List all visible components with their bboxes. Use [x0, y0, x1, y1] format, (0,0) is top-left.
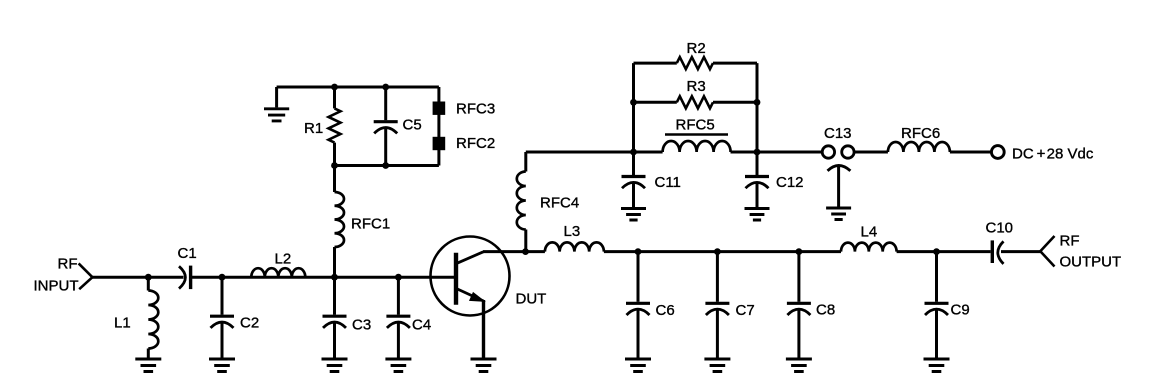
- wire input main line: [92, 276, 183, 279]
- inductor RFC5: [663, 135, 731, 153]
- ground C11: [621, 209, 646, 221]
- inductor L4: [841, 243, 897, 252]
- ground top-left: [264, 87, 289, 121]
- node C6 junction: [635, 248, 642, 255]
- transistor Q1 DUT: [431, 237, 510, 358]
- svg-text:L4: L4: [861, 224, 878, 241]
- wire bias rail left: [526, 151, 663, 154]
- wire bottom rail: [335, 164, 439, 167]
- node C5 bottom: [382, 162, 389, 169]
- inductor L3: [545, 242, 604, 251]
- ground C2: [209, 359, 235, 372]
- node C3 / RFC1 junction: [331, 274, 338, 281]
- inductor RFC6: [888, 142, 950, 152]
- svg-text:C10: C10: [986, 220, 1014, 237]
- wire divider right vertical: [756, 63, 759, 152]
- wire C10 to output arrow: [1001, 250, 1040, 253]
- capacitor C2: [210, 277, 234, 357]
- wire output line mid: [604, 250, 841, 253]
- ground C12: [745, 209, 770, 221]
- capacitor C6: [626, 252, 650, 358]
- svg-text:R3: R3: [687, 78, 706, 95]
- svg-text:INPUT: INPUT: [34, 278, 79, 295]
- ground C9: [924, 359, 950, 372]
- svg-text:DC + 28 Vdc: DC + 28 Vdc: [1012, 146, 1094, 163]
- node C2 junction: [219, 274, 226, 281]
- svg-text:L2: L2: [275, 251, 292, 268]
- svg-text:R1: R1: [304, 120, 323, 137]
- RF INPUT terminal arrow: [79, 263, 93, 289]
- ground C7: [704, 359, 730, 372]
- svg-text:RF: RF: [1060, 233, 1080, 250]
- capacitor C10: [992, 240, 1003, 264]
- capacitor C5: [374, 87, 398, 166]
- inductor L2: [251, 268, 305, 277]
- svg-text:C4: C4: [412, 317, 431, 334]
- RF OUTPUT terminal arrow: [1040, 236, 1054, 267]
- svg-text:L3: L3: [564, 223, 581, 240]
- node R1 top: [331, 84, 338, 91]
- wire divider left vertical: [632, 63, 635, 152]
- svg-text:C1: C1: [178, 245, 197, 262]
- svg-text:L1: L1: [114, 315, 131, 332]
- svg-text:RFC1: RFC1: [351, 216, 390, 233]
- wire RFC6 to DC terminal: [950, 151, 992, 154]
- svg-text:C8: C8: [816, 302, 835, 319]
- node C8 junction: [796, 248, 803, 255]
- resistor R2: [634, 57, 758, 69]
- ground C6: [625, 359, 651, 372]
- svg-text:C9: C9: [951, 302, 970, 319]
- inductor L1: [148, 277, 158, 357]
- capacitor C1: [179, 266, 191, 290]
- node R3 left: [630, 99, 637, 106]
- node C9 junction: [933, 248, 940, 255]
- svg-text:C13: C13: [824, 125, 852, 142]
- wire rail C12 to C13: [757, 151, 822, 154]
- wire RFC3/RFC2 branch: [437, 87, 440, 166]
- node C12 / divider junction: [754, 149, 761, 156]
- node R1 bottom: [331, 162, 338, 169]
- svg-text:C7: C7: [736, 302, 755, 319]
- svg-text:RFC5: RFC5: [676, 117, 715, 134]
- ground C4: [385, 359, 411, 372]
- wire L4 to C10: [897, 250, 991, 253]
- node C4 junction: [395, 274, 402, 281]
- wire RFC5 to C12 node: [731, 151, 758, 154]
- svg-text:RFC6: RFC6: [901, 125, 940, 142]
- resistor R1: [329, 87, 341, 166]
- node C11 / divider junction: [630, 149, 637, 156]
- resistor R3: [634, 96, 758, 108]
- node C7 junction: [714, 248, 721, 255]
- capacitor C9: [925, 252, 949, 358]
- ground C3: [322, 359, 348, 372]
- svg-text:C11: C11: [655, 174, 681, 191]
- svg-text:R2: R2: [687, 40, 706, 57]
- ground C8: [786, 359, 812, 372]
- ground L1: [135, 359, 161, 372]
- ground emitter: [471, 359, 497, 372]
- node L1 junction: [145, 274, 152, 281]
- wire top rail: [277, 86, 439, 89]
- node C5 top: [382, 84, 389, 91]
- node R3 right: [754, 99, 761, 106]
- wire C1 to base: [191, 276, 456, 279]
- svg-text:RFC4: RFC4: [540, 195, 579, 212]
- node collector / RFC4 junction: [522, 248, 529, 255]
- capacitor C11: [622, 152, 646, 207]
- inductor RFC1: [335, 166, 345, 278]
- svg-text:RFC3: RFC3: [456, 101, 495, 118]
- feedthrough capacitor C13: [822, 146, 854, 207]
- inductor RFC4: [517, 152, 526, 252]
- wire C13 to RFC6: [854, 151, 888, 154]
- svg-text:C3: C3: [352, 317, 371, 334]
- capacitor C12: [745, 152, 769, 207]
- svg-text:C6: C6: [656, 302, 675, 319]
- wire collector output line: [483, 250, 545, 253]
- capacitor C3: [323, 277, 347, 357]
- ferrite bead RFC2: [433, 137, 446, 150]
- svg-text:C12: C12: [776, 174, 804, 191]
- ferrite bead RFC3: [433, 102, 446, 115]
- svg-text:RF: RF: [58, 256, 78, 273]
- svg-text:C2: C2: [240, 315, 259, 332]
- svg-text:OUTPUT: OUTPUT: [1060, 254, 1122, 271]
- capacitor C4: [386, 277, 410, 357]
- capacitor C7: [705, 252, 729, 358]
- capacitor C8: [787, 252, 811, 358]
- svg-text:RFC2: RFC2: [456, 135, 495, 152]
- svg-text:C5: C5: [403, 117, 422, 134]
- DC terminal: [991, 146, 1004, 159]
- svg-text:DUT: DUT: [516, 291, 547, 308]
- ground C13: [826, 208, 851, 220]
